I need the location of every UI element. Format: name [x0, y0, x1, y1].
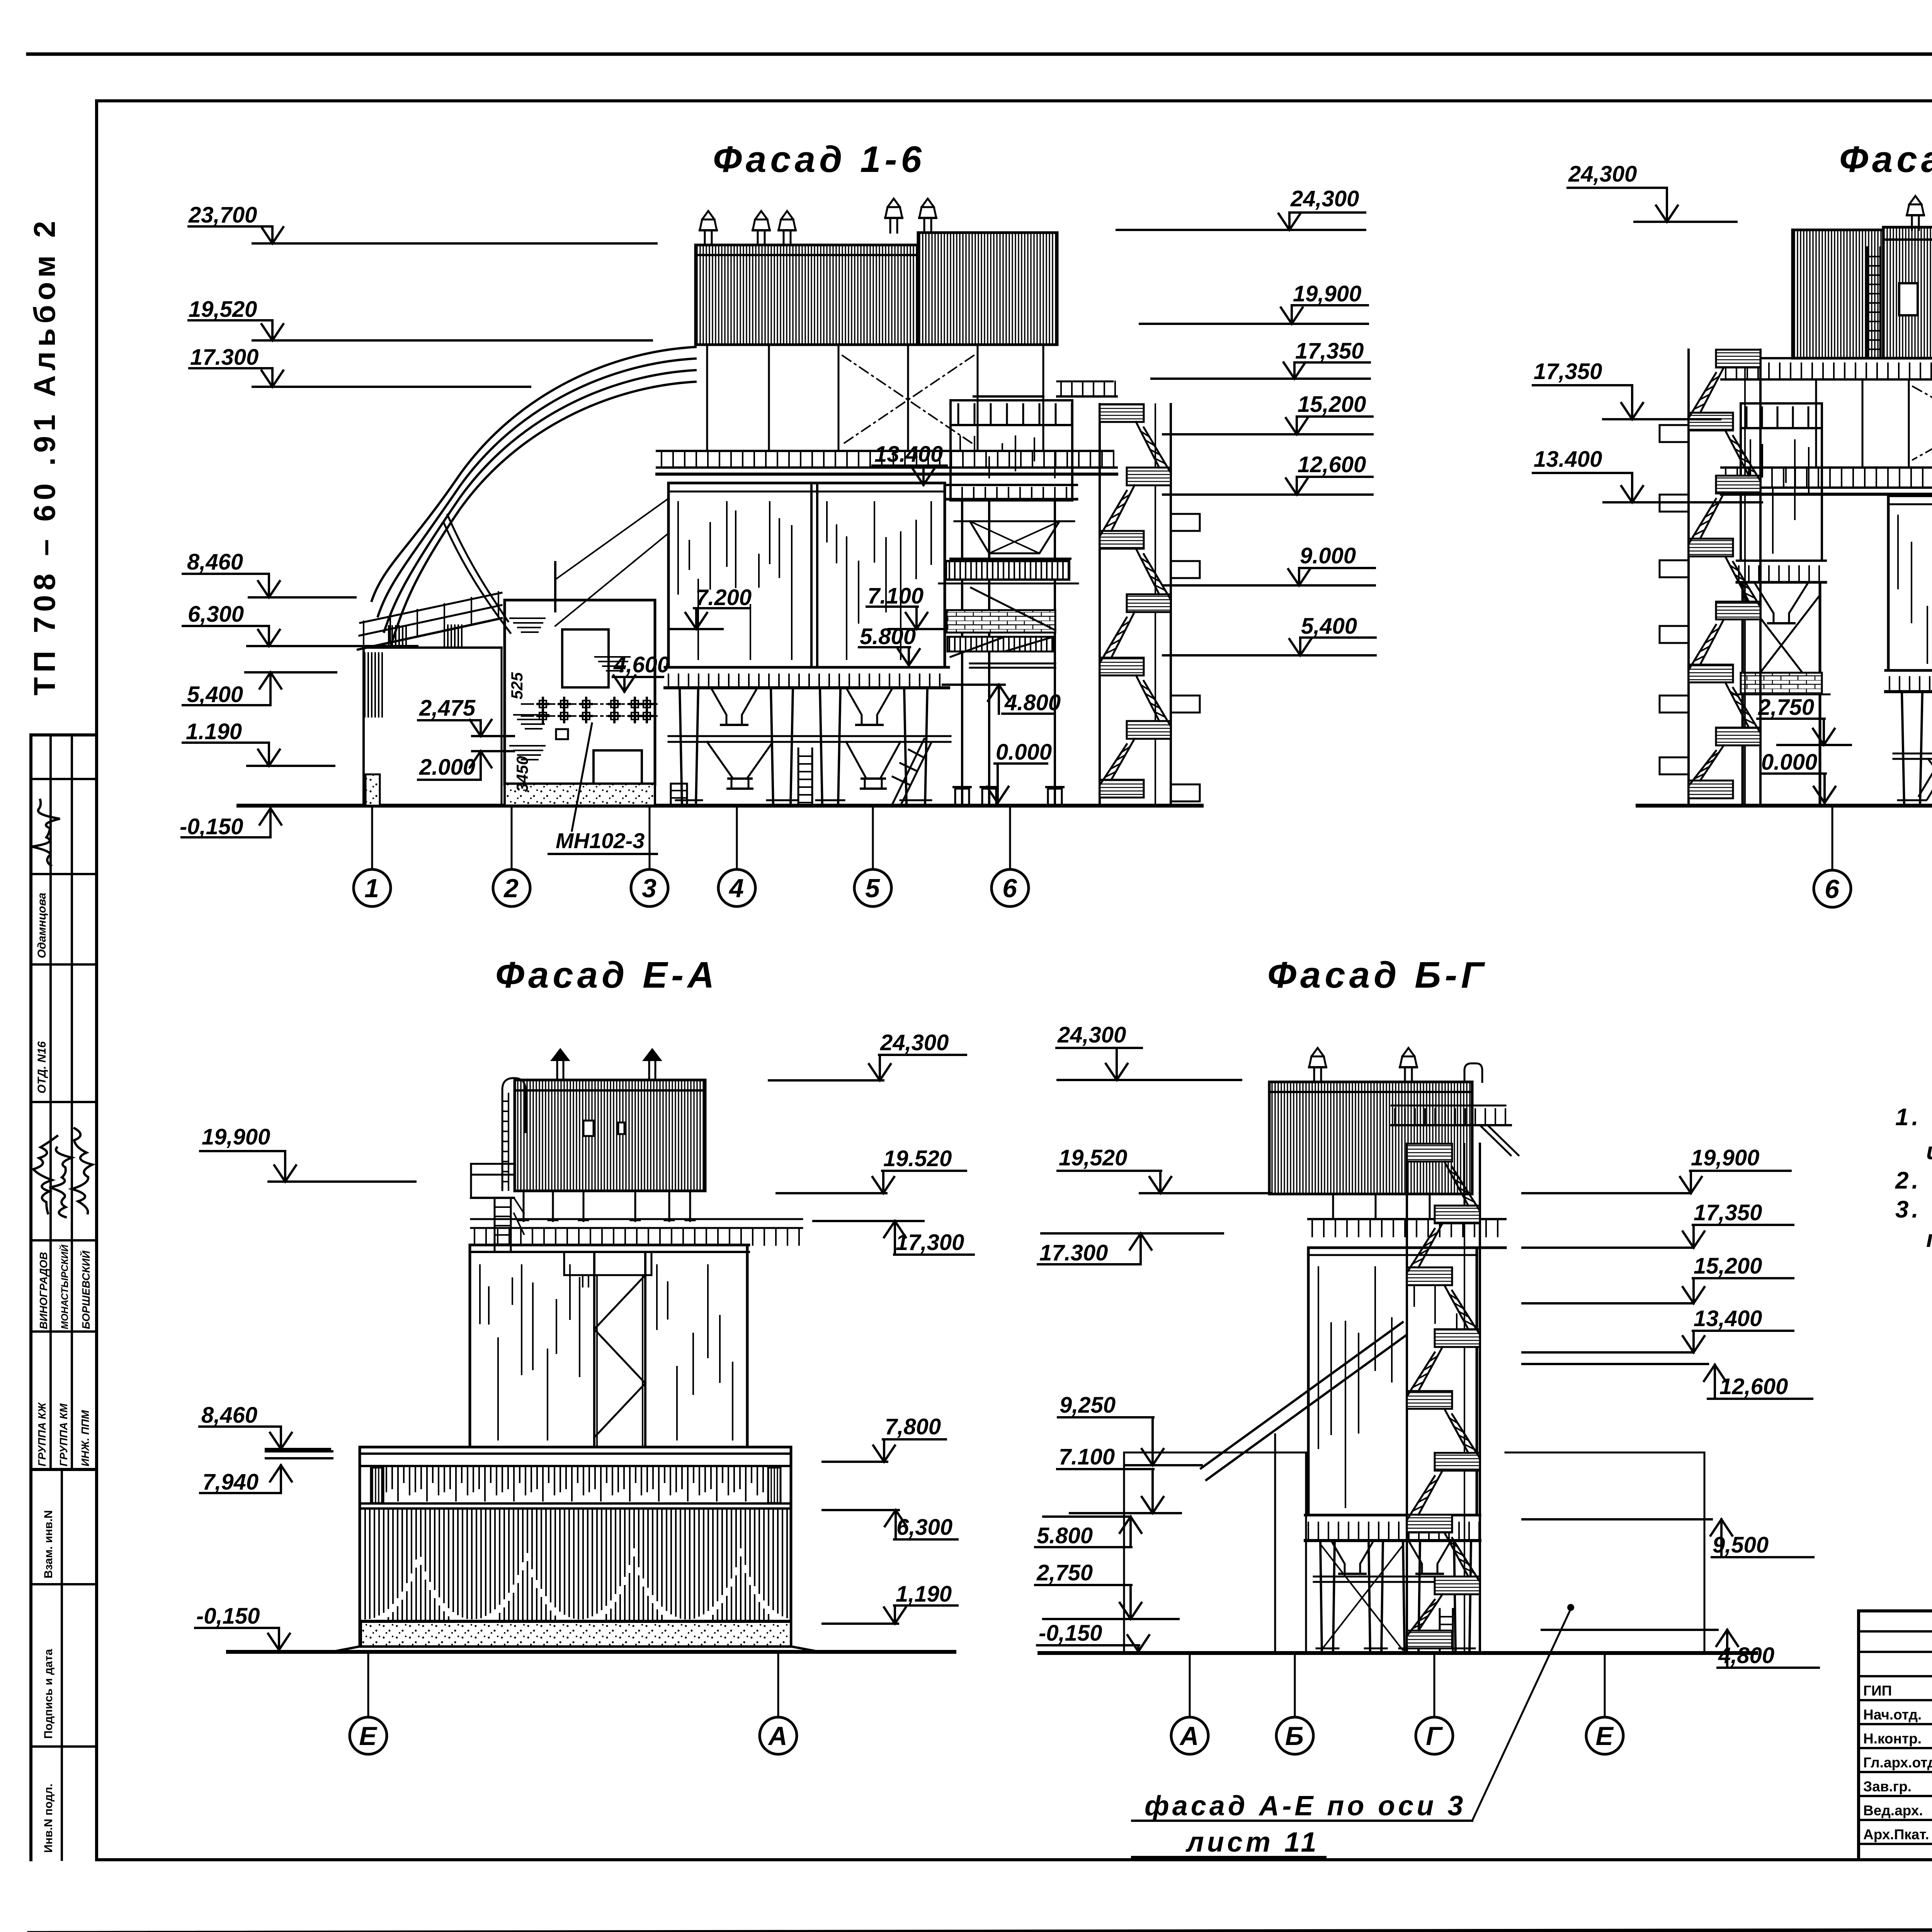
f61 lower tie beams — [1893, 753, 1932, 755]
f16 tower walkway hatched 9.000 — [946, 561, 1069, 580]
level mark 9,500 — [1522, 1519, 1813, 1558]
level mark 7.100 — [867, 583, 943, 629]
svg-text:525: 525 — [508, 672, 526, 699]
svg-text:Фасад 1-6: Фасад 1-6 — [713, 139, 925, 180]
f61 stair tower left — [1689, 350, 1760, 806]
level mark 17,350 — [1533, 359, 1720, 419]
svg-text:3. Схема расположения стенобог: 3. Схема расположения стенобого огражден… — [1895, 1196, 1932, 1223]
fEA base fringe band — [386, 1466, 763, 1501]
svg-text:19,900: 19,900 — [1293, 281, 1361, 306]
fBG background building walls — [1124, 1452, 1704, 1653]
svg-text:Б: Б — [1285, 1721, 1304, 1751]
f16 lower tie beams — [668, 735, 951, 737]
level mark 7,940 — [200, 1465, 292, 1495]
svg-text:ОТД. N16: ОТД. N16 — [36, 1041, 48, 1094]
level mark 12,600 — [1163, 452, 1372, 495]
svg-text:19.520: 19.520 — [883, 1146, 952, 1171]
svg-text:помещения фильтров - лист 21.: помещения фильтров - лист 21. — [1926, 1226, 1932, 1252]
axis Б — [1276, 1653, 1313, 1754]
svg-text:Одамнцова: Одамнцова — [36, 893, 48, 958]
axis Е — [1586, 1653, 1623, 1754]
svg-text:ВИНОГРАДОВ: ВИНОГРАДОВ — [37, 1252, 49, 1329]
left stamp signatures — [32, 800, 60, 866]
f61 roof vents — [1907, 196, 1924, 230]
fBG lower beams funnels — [1314, 1576, 1476, 1578]
level mark 17,350 — [1151, 338, 1370, 379]
fEA under-roof posts — [519, 1191, 695, 1221]
f61 under-roof framing — [1816, 379, 1932, 468]
svg-text:7.200: 7.200 — [696, 585, 752, 610]
f16 roof vents — [700, 211, 717, 245]
fBG under-roof posts — [1333, 1194, 1464, 1219]
f16 annex building — [505, 600, 655, 806]
fBG hopper deck band — [1305, 1515, 1480, 1541]
fEA roof block corrugated — [515, 1080, 705, 1191]
level mark 17,300 — [813, 1221, 974, 1255]
f61 walkway band — [1721, 358, 1932, 379]
level mark 24,300 — [1056, 1022, 1241, 1080]
svg-text:4: 4 — [728, 874, 744, 903]
svg-text:12,600: 12,600 — [1298, 452, 1366, 477]
svg-text:ГИП: ГИП — [1863, 1683, 1892, 1699]
svg-text:ГРУППА КЖ: ГРУППА КЖ — [36, 1402, 48, 1466]
svg-text:Фасад Б-Г: Фасад Б-Г — [1267, 954, 1488, 996]
svg-text:5.800: 5.800 — [1037, 1523, 1093, 1548]
f16 mast — [554, 562, 556, 611]
svg-text:17.300: 17.300 — [190, 345, 259, 370]
svg-text:7,940: 7,940 — [202, 1469, 259, 1495]
axis 3 — [631, 806, 668, 906]
f61 small silo support frame — [1733, 582, 1830, 806]
f16 pipes bundle — [372, 347, 696, 647]
f16 main deck band 17.35 — [657, 451, 1117, 474]
level mark 2,750 — [1757, 695, 1851, 745]
axis 4 — [718, 806, 755, 906]
f61 hopper deck band — [1886, 670, 1932, 692]
f16 lower hoppers — [707, 742, 773, 779]
svg-text:Е: Е — [359, 1721, 378, 1751]
svg-text:13.400: 13.400 — [1534, 447, 1602, 472]
svg-text:ция элементов заполнения проем: ция элементов заполнения проемов - лист … — [1926, 1138, 1932, 1165]
svg-text:Г: Г — [1426, 1721, 1443, 1751]
level mark 4.800 — [943, 685, 1061, 715]
level mark 1,190 — [823, 1582, 957, 1624]
svg-text:17.300: 17.300 — [1039, 1240, 1108, 1265]
svg-text:13,400: 13,400 — [1694, 1306, 1762, 1331]
f61 small silo left — [1737, 403, 1826, 582]
level mark 23,700 — [188, 202, 656, 243]
level mark 17.300 — [189, 345, 530, 387]
level mark 8,460 — [199, 1403, 330, 1449]
fBG roof block corrugated — [1269, 1082, 1472, 1194]
level mark 9.000 — [1163, 543, 1375, 585]
svg-text:17,350: 17,350 — [1534, 359, 1602, 384]
fEA roof access ladder loop — [502, 1078, 526, 1190]
f61 inclined ladder — [1919, 726, 1932, 799]
svg-text:-0,150: -0,150 — [180, 814, 243, 839]
svg-text:Взам. инв.N: Взам. инв.N — [42, 1510, 55, 1578]
fBG note facade A-E — [1132, 1604, 1574, 1858]
f16 tower brick platform — [947, 610, 1055, 633]
facade E-A ground line — [228, 1650, 954, 1654]
fBG inclined gallery — [1201, 1322, 1406, 1653]
svg-text:А: А — [767, 1721, 787, 1751]
notes list — [1895, 1104, 1932, 1252]
level mark 2,750 — [1035, 1560, 1179, 1619]
level mark 24,300 — [769, 1030, 966, 1080]
svg-text:6,300: 6,300 — [188, 602, 244, 627]
level mark 24,300 — [1568, 162, 1736, 222]
f16 support legs — [676, 688, 931, 806]
svg-text:4.800: 4.800 — [1004, 690, 1061, 715]
level mark -0,150 — [180, 808, 281, 839]
level mark 9,250 — [1058, 1393, 1202, 1465]
f16 anchor row MN102-3 — [522, 698, 657, 722]
svg-text:17,350: 17,350 — [1295, 338, 1364, 364]
svg-text:19,520: 19,520 — [1059, 1145, 1127, 1170]
svg-text:2.000: 2.000 — [419, 755, 475, 780]
svg-text:24,300: 24,300 — [1290, 186, 1359, 211]
svg-text:8,460: 8,460 — [201, 1403, 257, 1428]
svg-text:Фасад Е-А: Фасад Е-А — [495, 954, 718, 996]
f16 tower braces — [951, 588, 1055, 657]
f16 roof block corrugated — [696, 233, 1057, 345]
level mark 24,300 — [1117, 186, 1365, 230]
level mark 19,520 — [189, 297, 652, 340]
sheet outer border bottom — [29, 1929, 1932, 1932]
svg-text:Н.контр.: Н.контр. — [1863, 1731, 1922, 1747]
axis Г — [1416, 1653, 1453, 1754]
svg-text:3450: 3450 — [513, 756, 531, 792]
svg-text:17,350: 17,350 — [1694, 1200, 1762, 1225]
level mark 7.200 — [670, 585, 752, 629]
fEA base block — [332, 1447, 820, 1652]
level mark 5.800 — [859, 624, 920, 665]
f16 filter block right — [947, 396, 1077, 500]
fBG braces — [1321, 1546, 1403, 1650]
f16 inclined ladder — [893, 739, 931, 804]
svg-text:12,600: 12,600 — [1719, 1374, 1788, 1399]
fEA silo body — [470, 1245, 747, 1447]
f16 under-roof framing — [702, 345, 1049, 451]
svg-text:ТП 708 – 60 .91 Альбом 2: ТП 708 – 60 .91 Альбом 2 — [27, 216, 61, 696]
svg-text:6,300: 6,300 — [896, 1515, 952, 1540]
facade 1-6 ground line — [238, 804, 1202, 808]
fEA roof vents — [550, 1048, 662, 1080]
level mark 5,400 — [183, 672, 336, 707]
svg-text:Инв.N подл.: Инв.N подл. — [42, 1784, 55, 1853]
svg-text:5,400: 5,400 — [187, 682, 243, 707]
level mark 0.000 — [987, 740, 1052, 803]
svg-text:Нач.отд.: Нач.отд. — [1863, 1707, 1922, 1723]
level mark 17,350 — [1522, 1200, 1793, 1248]
level mark 2,475 — [418, 696, 514, 736]
f16 tower lower platform — [947, 637, 1053, 651]
svg-text:5: 5 — [865, 874, 880, 903]
svg-text:5.800: 5.800 — [860, 624, 916, 649]
svg-text:Подпись и дата: Подпись и дата — [42, 1649, 55, 1739]
f16 access ladder — [798, 748, 812, 806]
svg-text:1. Схемы заполнения оконных пр: 1. Схемы заполнения оконных проемов, спе… — [1895, 1104, 1932, 1131]
svg-text:5,400: 5,400 — [1301, 614, 1357, 639]
level mark -0,150 — [195, 1604, 290, 1650]
svg-text:7.100: 7.100 — [1059, 1444, 1115, 1469]
f16 stair side platforms — [1171, 514, 1200, 801]
svg-text:Арх.Пкат.: Арх.Пкат. — [1863, 1827, 1929, 1842]
f16 silos body — [668, 483, 945, 667]
fEA under-walkway hopper box — [564, 1252, 651, 1287]
level mark 6,300 — [183, 602, 417, 646]
level mark 13.400 — [872, 442, 947, 485]
svg-text:1.190: 1.190 — [186, 719, 242, 744]
fBG roof vents — [1309, 1048, 1326, 1082]
svg-text:2,475: 2,475 — [419, 696, 476, 721]
svg-text:А: А — [1179, 1721, 1199, 1751]
svg-text:4,600: 4,600 — [613, 652, 670, 677]
level mark 4,600 — [613, 652, 670, 692]
f16 annex side steps — [671, 784, 687, 806]
svg-text:15,200: 15,200 — [1298, 392, 1366, 417]
f16 label MN102-3 — [549, 723, 657, 854]
level mark 6,300 — [823, 1510, 957, 1540]
f16 stair tower — [1100, 404, 1171, 806]
level mark 7,800 — [823, 1414, 946, 1462]
left stamp rotated labels — [36, 893, 92, 1853]
level mark 19,900 — [200, 1124, 415, 1182]
level mark 13,400 — [1522, 1306, 1793, 1352]
svg-text:24,300: 24,300 — [1568, 162, 1637, 187]
title block role labels — [1863, 1683, 1932, 1842]
facade B-G ground line — [1039, 1651, 1756, 1655]
level mark 8,460 — [183, 549, 355, 597]
svg-text:-0,150: -0,150 — [1039, 1621, 1102, 1646]
svg-text:24,300: 24,300 — [1057, 1022, 1126, 1048]
level mark 5.800 — [1035, 1517, 1141, 1548]
svg-text:Е: Е — [1595, 1721, 1614, 1751]
svg-text:9,250: 9,250 — [1060, 1393, 1116, 1418]
svg-text:Вед.арх.: Вед.арх. — [1863, 1803, 1923, 1818]
axis Е — [350, 1652, 387, 1754]
svg-text:24,300: 24,300 — [880, 1030, 949, 1055]
level mark 15,200 — [1163, 392, 1372, 434]
facade 6-1 ground line — [1638, 804, 1932, 808]
svg-text:Зав.гр.: Зав.гр. — [1863, 1779, 1912, 1794]
level mark 0.000 — [1760, 750, 1835, 803]
f61 roof ladder — [1867, 247, 1880, 358]
svg-text:фасад А-Е по оси 3: фасад А-Е по оси 3 — [1145, 1791, 1466, 1821]
svg-text:17,300: 17,300 — [896, 1230, 964, 1255]
sheet outer border top — [28, 53, 1932, 56]
axis 5 — [854, 806, 891, 906]
axis А — [1171, 1653, 1208, 1754]
level mark 1.190 — [183, 719, 334, 766]
svg-text:9.000: 9.000 — [1300, 543, 1356, 568]
fEA central cage ladder — [594, 1252, 645, 1447]
title block main — [1859, 1611, 1932, 1860]
f16 annex wall shading strokes — [510, 618, 630, 760]
axis А — [760, 1652, 797, 1754]
svg-text:БОРШЕВСКИЙ: БОРШЕВСКИЙ — [80, 1250, 92, 1329]
f16 filter hopper — [954, 521, 1074, 553]
axis 1 — [354, 806, 391, 906]
level mark 19,900 — [1140, 281, 1368, 324]
svg-text:ИНЖ. ППМ: ИНЖ. ППМ — [79, 1410, 91, 1466]
svg-text:6: 6 — [1002, 874, 1017, 903]
f16 lean-to left low building — [358, 592, 502, 806]
svg-text:МН102-3: МН102-3 — [556, 828, 645, 853]
fBG external stair tower — [1407, 1144, 1480, 1653]
level mark 13.400 — [1533, 447, 1762, 502]
level mark 7.100 — [1057, 1444, 1181, 1513]
f61 roof block corrugated — [1793, 227, 1932, 358]
svg-text:0.000: 0.000 — [1761, 750, 1817, 775]
svg-text:8,460: 8,460 — [187, 549, 243, 575]
left stamp strip grid — [31, 735, 97, 1860]
f61 main silos body — [1888, 496, 1932, 670]
axis 2 — [493, 806, 530, 906]
level mark 19,520 — [1058, 1145, 1271, 1193]
f61 lower hoppers — [1928, 759, 1932, 794]
svg-text:2,750: 2,750 — [1758, 695, 1814, 720]
fEA walkway band — [471, 1219, 802, 1252]
svg-text:6: 6 — [1825, 874, 1840, 904]
fBG roof right curl — [1464, 1063, 1482, 1082]
fBG support legs — [1316, 1541, 1475, 1653]
svg-text:МОНАСТЫРСКИЙ: МОНАСТЫРСКИЙ — [59, 1244, 70, 1329]
svg-text:1,190: 1,190 — [896, 1582, 952, 1607]
fEA left stair platform — [471, 1164, 524, 1252]
svg-text:ГРУППА КМ: ГРУППА КМ — [58, 1403, 70, 1466]
f16 hopper deck band — [665, 667, 949, 688]
svg-text:Фасад 6-1: Фасад 6-1 — [1839, 139, 1932, 180]
f61 stair side platforms — [1660, 425, 1689, 774]
svg-text:15,200: 15,200 — [1694, 1253, 1762, 1279]
svg-text:23,700: 23,700 — [188, 202, 257, 228]
level mark 2.000 — [418, 751, 514, 780]
level mark -0,150 — [1037, 1621, 1149, 1651]
svg-text:13.400: 13.400 — [874, 442, 943, 467]
fBG deck band — [1308, 1219, 1505, 1248]
svg-text:7,800: 7,800 — [885, 1414, 941, 1439]
f61 support legs — [1898, 692, 1932, 806]
axis 6 — [1814, 806, 1851, 907]
svg-text:1: 1 — [364, 874, 379, 903]
fBG top stair landing right of roof — [1391, 1105, 1519, 1155]
svg-text:2,750: 2,750 — [1036, 1560, 1093, 1585]
level mark 12,600 — [1704, 1365, 1812, 1399]
level mark 17.300 — [1038, 1233, 1223, 1265]
f16 walkway right of roof — [1057, 381, 1117, 396]
svg-text:Гл.арх.отд.: Гл.арх.отд. — [1863, 1755, 1932, 1770]
f16 right tower columns — [951, 500, 1070, 806]
svg-text:2. Спецификация стальных элеме: 2. Спецификация стальных элементов - лис… — [1895, 1167, 1932, 1194]
svg-text:2: 2 — [503, 874, 519, 903]
svg-text:7.100: 7.100 — [867, 583, 923, 609]
f61 main deck band — [1721, 468, 1932, 494]
f16 funnels under deck — [711, 688, 757, 725]
fBG silo body — [1308, 1248, 1477, 1515]
svg-text:19,520: 19,520 — [189, 297, 257, 322]
level mark 19.520 — [777, 1146, 966, 1193]
level mark 15,200 — [1522, 1253, 1793, 1303]
svg-text:лист 11: лист 11 — [1185, 1827, 1320, 1858]
svg-text:3: 3 — [642, 874, 656, 903]
level mark 19,900 — [1522, 1145, 1791, 1193]
svg-text:0.000: 0.000 — [996, 740, 1052, 765]
level mark 4,800 — [1542, 1630, 1819, 1668]
level mark 5,400 — [1163, 614, 1376, 655]
axis 6 — [992, 806, 1029, 906]
svg-text:-0,150: -0,150 — [196, 1604, 260, 1629]
svg-text:19,900: 19,900 — [1691, 1145, 1759, 1170]
fEA base wavy band — [365, 1509, 787, 1621]
svg-text:19,900: 19,900 — [202, 1124, 270, 1150]
